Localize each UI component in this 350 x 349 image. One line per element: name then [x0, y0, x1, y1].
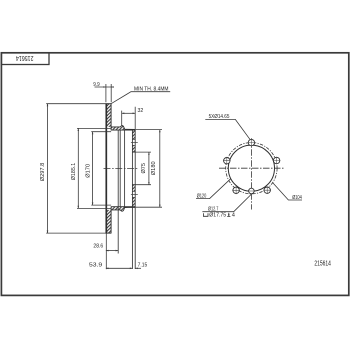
- dim D170 ext lines: [91, 132, 111, 205]
- label D12.7 underline leader: [202, 194, 251, 212]
- dim D297.8 ext lines: [46, 104, 105, 233]
- hat top wall hatched band: [111, 126, 135, 130]
- disc top edge: [106, 103, 112, 105]
- flange bottom hatched bar: [132, 185, 135, 208]
- bolt hole center tick bottom: [131, 193, 138, 195]
- disc right face bottom segment: [110, 210, 112, 234]
- dim 9.9 arrows: [103, 86, 106, 88]
- bolt hole upper-right: [273, 157, 281, 165]
- svg-text:9.9: 9.9: [93, 82, 99, 88]
- svg-text:Ø180: Ø180: [151, 161, 157, 175]
- bolt hole top: [248, 139, 256, 147]
- flange top bolt hole gap: [132, 139, 136, 145]
- label 5XD14.65 underline leader: [205, 119, 250, 139]
- bolt circle D120 dash-dot: [226, 143, 277, 194]
- dim 32 ext lines: [122, 107, 136, 130]
- flange top hole edges: [132, 139, 135, 145]
- svg-text:Ø185.1: Ø185.1: [71, 163, 77, 181]
- disc friction ring section top bar: [106, 104, 112, 127]
- dim D180 line: [159, 130, 161, 208]
- title box top-left: [1, 53, 49, 65]
- horizontal center line: [219, 167, 285, 169]
- center line axis: [104, 167, 139, 169]
- bolt hole lower-right: [263, 186, 271, 194]
- bolt hole lower-left: [232, 187, 240, 195]
- label D120 underline leader: [196, 179, 231, 199]
- dim D75 line: [148, 152, 150, 185]
- flange pilot bore edges: [132, 152, 135, 185]
- svg-text:53.9: 53.9: [89, 262, 102, 268]
- hole D12.7 bottom: [248, 188, 255, 194]
- svg-text:Ø170: Ø170: [86, 164, 92, 178]
- disc right face top segment: [110, 104, 112, 128]
- dim D180 ext lines: [136, 130, 162, 208]
- flange outline circle D104: [228, 145, 274, 191]
- counterbore note symbol: [203, 213, 208, 216]
- svg-text:215614: 215614: [314, 260, 331, 267]
- hat bottom wall hatched band: [111, 207, 135, 211]
- border frame: [1, 53, 348, 296]
- svg-text:Ø297.8: Ø297.8: [40, 163, 46, 182]
- dim D185.1 ext lines: [77, 128, 111, 208]
- svg-text:32: 32: [138, 108, 144, 114]
- vertical center line: [250, 138, 252, 209]
- svg-text:7.15: 7.15: [138, 263, 148, 269]
- flange top hatched bar: [132, 130, 135, 153]
- depth symbol: [227, 213, 230, 217]
- dim D185.1 line: [77, 128, 79, 208]
- svg-text:215614: 215614: [16, 54, 34, 61]
- dim 7.15 tail and arrow: [135, 267, 141, 269]
- flange bottom hole edges: [132, 191, 135, 197]
- dim 9.9 line: [95, 86, 114, 88]
- bolt hole upper-left: [223, 157, 231, 165]
- disc bottom edge: [106, 232, 112, 234]
- dim 28.6 line: [106, 250, 118, 252]
- svg-text:28.6: 28.6: [93, 243, 103, 249]
- disc friction ring section bottom bar: [106, 210, 112, 233]
- dim 53.9 line: [106, 267, 132, 269]
- ext line disc left face below: [105, 233, 107, 269]
- flange bottom bolt hole gap: [132, 191, 136, 197]
- svg-text:Ø17.75: Ø17.75: [209, 213, 226, 219]
- dim 32 arrows: [122, 113, 125, 115]
- dim D75 ext lines: [135, 152, 151, 185]
- dim 32 line: [122, 112, 136, 114]
- dim 9.9 ext lines: [106, 84, 111, 102]
- flange faces vertical lines: [132, 130, 135, 269]
- note underline and leader: [111, 92, 170, 104]
- dim D170 line: [92, 132, 94, 205]
- hat inner surface verticals (groove silhouette): [118, 130, 124, 254]
- svg-text:Ø75: Ø75: [141, 163, 147, 174]
- disc left face thick line: [105, 104, 107, 234]
- bolt hole center tick top: [131, 141, 138, 143]
- dim D297.8 line: [47, 104, 49, 233]
- label D104 underline leader: [272, 182, 302, 200]
